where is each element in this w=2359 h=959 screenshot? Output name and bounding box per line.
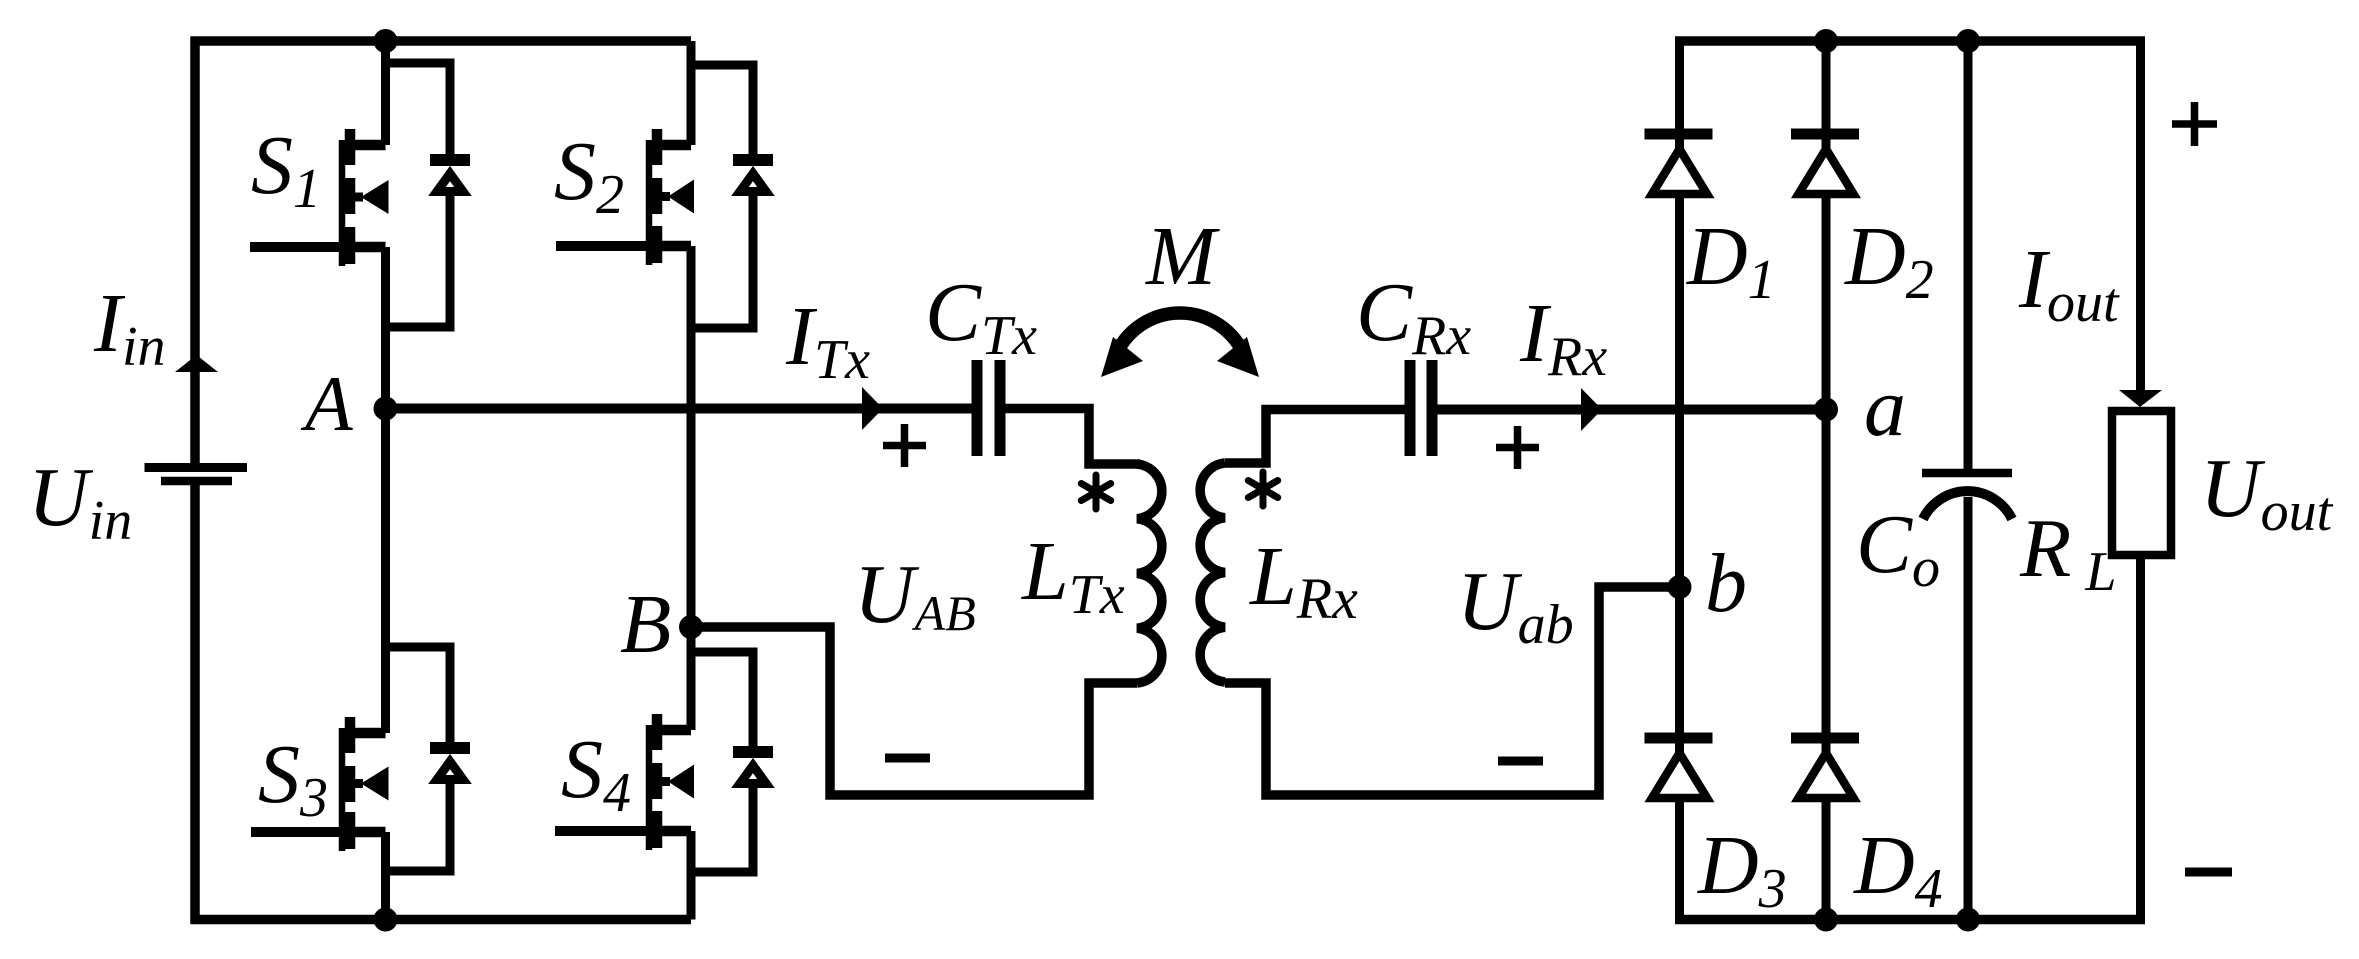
arrow Iin (up, on left rail) xyxy=(175,355,218,372)
capacitor CRx right plate xyxy=(1427,360,1438,456)
minus sign (UAB -) xyxy=(885,754,930,763)
wire: Co leg lower xyxy=(1964,497,1973,920)
coupling arc M xyxy=(1115,313,1245,357)
node B junction dot xyxy=(679,615,703,639)
transistor S1 channel source bar xyxy=(345,227,356,264)
wire: S3 source to bottom rail xyxy=(381,832,390,920)
plus sign (UAB +) xyxy=(883,424,926,467)
transistor S2 body arrow stem xyxy=(659,192,670,201)
svg-text:D2: D2 xyxy=(1844,210,1934,311)
capacitor CRx left plate xyxy=(1405,360,1416,456)
S1 body diode top connector wire xyxy=(386,63,451,155)
dot marker * (LTx) xyxy=(1081,475,1110,509)
wire: top rail right (rectifier) xyxy=(1675,36,2145,46)
transistor S2 source lead xyxy=(657,241,691,252)
S1 body diode anode triangle xyxy=(437,174,463,192)
diode D3 cathode bar xyxy=(1645,733,1713,744)
transistor S2 gate lead xyxy=(556,241,651,251)
transistor S3 channel body bar xyxy=(345,766,356,802)
svg-text:b: b xyxy=(1705,537,1747,630)
plus sign (Uout +) xyxy=(2172,102,2217,146)
svg-text:B: B xyxy=(620,578,671,671)
junction: S3 source at bottom rail xyxy=(374,908,398,932)
transistor S4 gate plate xyxy=(646,725,653,850)
dot marker * (LRx) xyxy=(1248,472,1277,506)
transistor S4 gate lead xyxy=(555,826,651,836)
wire: Co leg upper xyxy=(1964,41,1973,469)
transistor S1 drain lead xyxy=(350,140,386,151)
svg-text:IRx: IRx xyxy=(1519,287,1607,388)
svg-text:S4: S4 xyxy=(561,723,631,824)
S2 body diode top connector wire xyxy=(691,65,753,155)
wire: S4 source to bottom rail xyxy=(687,831,696,920)
svg-text:D3: D3 xyxy=(1697,819,1787,920)
transistor S4 channel source bar xyxy=(652,811,663,848)
wire: node A to CTx xyxy=(386,404,978,414)
svg-text:Uab: Uab xyxy=(1457,555,1574,656)
wire: D1/D3 leg vertical xyxy=(1675,41,1684,920)
svg-text:RL: RL xyxy=(2019,502,2116,603)
S4 body diode top connector wire xyxy=(691,652,753,747)
junction: D4 leg at bottom rail xyxy=(1814,908,1838,932)
capacitor Co top plate xyxy=(1922,469,2012,478)
diode D1 triangle xyxy=(1652,149,1707,194)
inductor LTx coil (4 turns) xyxy=(1137,464,1162,683)
transistor S4 drain lead xyxy=(657,725,691,736)
diode D4 triangle xyxy=(1799,753,1854,798)
minus sign (Uout -) xyxy=(2185,868,2232,877)
junction: D2 leg at top rail xyxy=(1814,29,1838,53)
capacitor CTx left plate xyxy=(972,360,983,456)
capacitor Co curved plate xyxy=(1923,491,2012,519)
arrow ITx (right, on A wire) xyxy=(862,387,883,430)
coupling arrow left head xyxy=(1101,337,1143,377)
transistor S1 gate plate xyxy=(339,140,346,266)
wire: bottom rail left (input bridge) xyxy=(191,915,691,925)
transistor S1 body arrow stem xyxy=(352,193,363,202)
transistor S3 gate lead xyxy=(251,827,344,837)
svg-text:Iout: Iout xyxy=(2018,233,2120,334)
S2 body diode anode triangle xyxy=(740,174,766,192)
svg-text:M: M xyxy=(1145,210,1220,303)
transistor S2 channel body bar xyxy=(652,178,663,214)
arrow Iout (down, on RL leg) xyxy=(2119,390,2162,407)
wire: LTx bottom to node B (via UAB loop) xyxy=(691,627,1137,795)
S4 body diode cathode bar xyxy=(733,746,773,758)
svg-text:LTx: LTx xyxy=(1021,525,1125,626)
transistor S2 channel drain bar xyxy=(652,129,663,165)
S3 body diode bottom connector wire xyxy=(386,784,451,872)
node a junction dot xyxy=(1814,398,1838,422)
wire: S2 source to node B xyxy=(687,246,696,627)
transistor S1 channel body bar xyxy=(345,178,356,214)
junction: S1 drain at top rail xyxy=(374,29,398,53)
diode D2 triangle xyxy=(1799,149,1854,194)
diode D1 cathode bar xyxy=(1645,129,1713,140)
svg-text:Iin: Iin xyxy=(93,277,166,378)
junction: Co leg at top rail xyxy=(1956,29,1980,53)
transistor S3 body arrow xyxy=(361,767,389,801)
junction: Co leg at bottom rail xyxy=(1956,908,1980,932)
svg-text:ITx: ITx xyxy=(785,290,870,391)
transistor S4 source lead xyxy=(657,826,691,837)
minus sign (Uab -) xyxy=(1498,757,1543,766)
transistor S4 body arrow stem xyxy=(659,777,670,786)
transistor S4 channel body bar xyxy=(652,763,663,799)
S2 body diode bottom connector wire xyxy=(691,196,753,329)
wire: S3 drain vertical (A to S3) xyxy=(381,409,390,734)
wire: input left rail upper segment xyxy=(190,37,200,467)
diode D3 triangle xyxy=(1652,753,1707,798)
wire: Iout leg upper xyxy=(2136,41,2145,391)
plus sign (Uab +) xyxy=(1496,426,1539,469)
svg-text:CRx: CRx xyxy=(1356,266,1471,367)
transistor S2 drain lead xyxy=(657,140,691,151)
wire: bottom rail right (rectifier) xyxy=(1675,915,2145,925)
transistor S3 body arrow stem xyxy=(352,779,363,788)
svg-text:A: A xyxy=(300,360,353,447)
S1 body diode bottom connector wire xyxy=(386,196,451,328)
S1 body diode cathode bar xyxy=(430,154,470,166)
svg-text:D4: D4 xyxy=(1853,819,1943,920)
S3 body diode anode triangle xyxy=(437,762,463,780)
wire: LRx top to CRx (step up) xyxy=(1225,410,1410,464)
svg-text:D1: D1 xyxy=(1686,210,1776,311)
transistor S4 body arrow xyxy=(668,765,694,799)
node A junction dot xyxy=(374,397,398,421)
wire: S4 drain vertical (B to S4) xyxy=(687,627,696,730)
wire: S1 drain vertical xyxy=(381,41,390,145)
svg-text:CTx: CTx xyxy=(925,266,1037,367)
wire: S2 drain vertical xyxy=(687,41,696,145)
transistor S3 channel drain bar xyxy=(345,717,356,753)
wire: top rail left (input bridge) xyxy=(191,36,691,46)
arrow IRx (right, on a wire) xyxy=(1581,388,1602,431)
transistor S2 gate plate xyxy=(646,140,653,265)
S2 body diode cathode bar xyxy=(733,154,773,166)
svg-text:a: a xyxy=(1864,361,1906,454)
svg-text:S1: S1 xyxy=(251,119,321,220)
wire: LRx bottom to node b (via Uab loop) xyxy=(1225,587,1680,795)
S3 body diode cathode bar xyxy=(430,742,470,754)
svg-text:S2: S2 xyxy=(554,125,624,226)
wire: RL to bottom rail xyxy=(2136,555,2145,920)
diode D4 cathode bar xyxy=(1791,733,1859,744)
svg-text:LRx: LRx xyxy=(1249,530,1358,631)
transistor S1 source lead xyxy=(350,242,386,253)
svg-text:Uin: Uin xyxy=(28,451,132,552)
S4 body diode anode triangle xyxy=(740,766,766,784)
battery Uin positive plate xyxy=(145,463,248,472)
transistor S3 channel source bar xyxy=(345,812,356,849)
wire: input left rail lower segment xyxy=(190,485,200,924)
wire: CTx to LTx top (step down) xyxy=(1000,409,1140,465)
capacitor CTx right plate xyxy=(995,360,1006,456)
svg-text:UAB: UAB xyxy=(854,548,976,641)
transistor S3 source lead xyxy=(350,827,386,838)
transistor S2 channel source bar xyxy=(652,226,663,263)
wire: D2/D4 leg vertical xyxy=(1822,41,1831,920)
wire: S1 source to node A xyxy=(381,247,390,409)
transistor S1 channel drain bar xyxy=(345,129,356,165)
svg-text:Uout: Uout xyxy=(2200,442,2334,543)
transistor S3 drain lead xyxy=(350,728,386,739)
transistor S1 gate lead xyxy=(250,242,344,252)
transistor S2 body arrow xyxy=(668,180,694,214)
wire: CRx to node a xyxy=(1432,405,1826,415)
resistor RL body xyxy=(2112,411,2171,555)
node b junction dot xyxy=(1668,575,1692,599)
S4 body diode bottom connector wire xyxy=(691,788,753,873)
transistor S4 channel drain bar xyxy=(652,714,663,750)
coupling arrow right head xyxy=(1217,337,1259,377)
inductor LRx coil (4 turns) xyxy=(1200,463,1225,682)
diode D2 cathode bar xyxy=(1791,129,1859,140)
transistor S1 body arrow xyxy=(361,180,389,214)
svg-text:S3: S3 xyxy=(258,728,328,829)
transistor S3 gate plate xyxy=(339,728,346,851)
battery Uin negative plate xyxy=(161,477,232,486)
S3 body diode top connector wire xyxy=(386,647,451,743)
